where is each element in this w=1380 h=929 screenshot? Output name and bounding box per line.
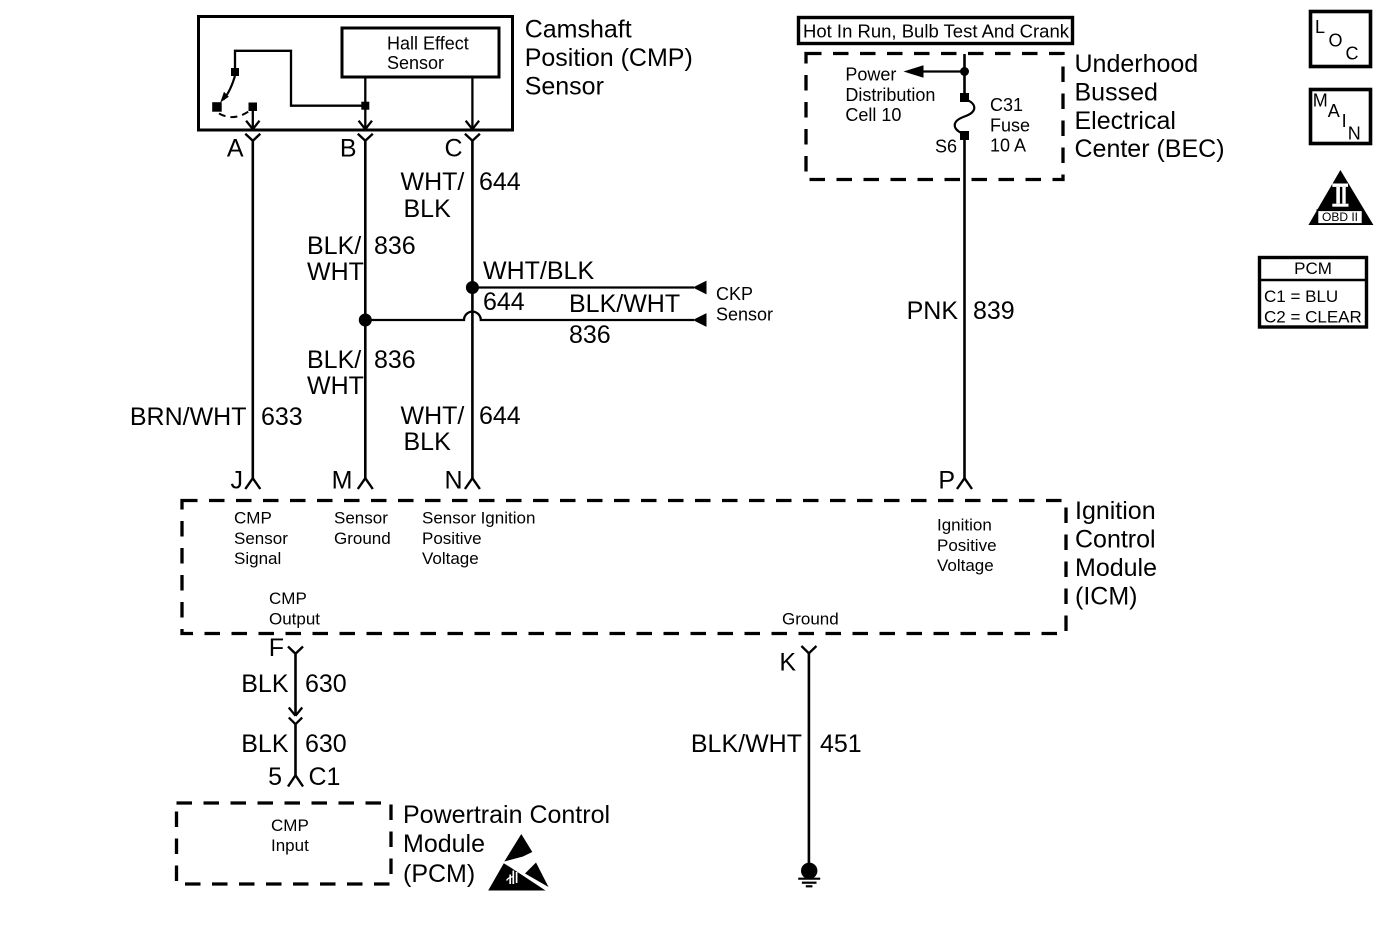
svg-text:Sensor: Sensor [234,529,288,548]
fuse C31 10A [955,94,1030,156]
svg-text:633: 633 [261,403,303,431]
svg-text:P: P [938,467,955,495]
svg-text:Control: Control [1075,526,1156,554]
dashed switch travel arc [219,111,250,118]
svg-text:C: C [1346,44,1359,64]
svg-text:N: N [444,467,462,495]
connector pin J [231,467,261,495]
Powertrain Control Module dashed box [177,803,392,884]
svg-text:O: O [1329,31,1343,51]
svg-text:WHT/: WHT/ [401,168,465,196]
svg-text:BLK/WHT: BLK/WHT [691,730,802,758]
svg-text:Ignition: Ignition [937,516,992,535]
label BLK/WHT 836 branch [569,290,680,349]
svg-text:Cell 10: Cell 10 [845,105,901,125]
label Sensor Ground [334,509,391,548]
svg-text:Ground: Ground [334,529,391,548]
label CMP Output [269,589,320,628]
svg-text:N: N [1348,124,1361,144]
svg-text:Camshaft: Camshaft [525,15,632,43]
label CMP Input [271,816,309,855]
svg-text:Voltage: Voltage [422,549,479,568]
label BLK 630 lower [241,730,346,758]
switch arm arrow [220,74,235,103]
svg-text:Positive: Positive [422,529,482,548]
MAIN reference box [1311,90,1371,144]
label BLK/WHT 836 upper [307,232,416,286]
svg-text:BLK/: BLK/ [307,346,361,374]
connector pin P [938,467,972,495]
svg-text:630: 630 [305,730,347,758]
svg-text:BLK/WHT: BLK/WHT [569,290,680,318]
svg-text:C: C [444,135,462,163]
svg-text:Output: Output [269,609,320,628]
junction node on B wire [359,314,371,326]
wire internal polyline to node B [235,51,365,106]
in-line connector on BLK 630 [289,708,302,725]
wire branch BLK/WHT 836 to CKP sensor with hop over C wire [365,312,706,327]
label BLK/WHT 451 [691,730,862,758]
svg-text:CKP: CKP [716,284,753,304]
svg-text:630: 630 [305,670,347,698]
svg-text:Ground: Ground [782,609,839,628]
wire A to J BRN/WHT 633 [252,141,255,478]
PCM connector color table [1260,258,1367,328]
svg-text:M: M [1313,91,1328,111]
svg-text:839: 839 [973,297,1015,325]
connector pin K [779,646,816,677]
svg-text:I: I [1342,111,1347,131]
label WHT/BLK 644 lower [401,402,521,456]
svg-text:Electrical: Electrical [1075,107,1176,135]
svg-text:C2 = CLEAR: C2 = CLEAR [1264,308,1362,327]
label BLK 630 upper [241,670,346,698]
svg-text:OBD II: OBD II [1322,210,1358,224]
svg-text:CMP: CMP [271,816,309,835]
connector pin N [444,467,479,495]
svg-text:L: L [1315,17,1325,37]
title Underhood Bussed Electrical Center (BEC) [1075,50,1225,163]
svg-text:BRN/WHT: BRN/WHT [130,403,247,431]
svg-text:BLK: BLK [404,195,452,223]
ground G [798,863,820,886]
svg-text:5: 5 [268,763,282,791]
wire from hot feed into BEC [963,54,966,97]
LOC reference box [1311,12,1371,67]
svg-text:644: 644 [483,288,525,316]
svg-text:Power: Power [845,65,896,85]
switch contact dot upper [232,69,239,76]
wire branch WHT/BLK 644 to CKP sensor [472,281,706,295]
svg-text:BLK: BLK [404,428,452,456]
svg-text:836: 836 [374,346,416,374]
label CMP Sensor Signal [234,509,288,569]
Hot In Run, Bulb Test And Crank header box [799,18,1073,44]
label WHT/BLK 644 branch [483,257,594,316]
label BLK/WHT 836 lower [307,346,416,400]
node CKP Sensor [716,284,773,325]
svg-text:Sensor: Sensor [525,72,604,100]
wire BLK/WHT 451 [808,653,811,864]
svg-text:BLK: BLK [241,670,289,698]
Ignition Control Module dashed box [182,501,1066,634]
svg-text:WHT/: WHT/ [401,402,465,430]
switch contact dot lower-right [249,103,257,111]
svg-text:Sensor: Sensor [716,305,773,325]
connector pin A [227,134,260,163]
OBD II symbol [1308,170,1373,225]
wire BLK 630 lower [294,724,297,775]
svg-text:Sensor Ignition: Sensor Ignition [422,509,535,528]
label PNK 839 [907,297,1015,325]
svg-text:WHT: WHT [307,258,364,286]
ESD sensitive device symbol [488,834,548,891]
svg-text:Distribution: Distribution [845,85,935,105]
svg-text:(ICM): (ICM) [1075,583,1137,611]
connector pin C [444,134,479,163]
svg-text:10 A: 10 A [990,136,1026,156]
svg-text:M: M [332,467,353,495]
svg-text:WHT: WHT [307,372,364,400]
wire BLK 630 upper [294,654,297,716]
svg-text:C31: C31 [990,95,1023,115]
svg-text:Input: Input [271,836,309,855]
svg-text:Voltage: Voltage [937,556,994,575]
junction node internal B [362,102,369,109]
svg-text:BLK: BLK [241,730,289,758]
Underhood BEC dashed box [806,54,1063,180]
svg-text:Hall Effect: Hall Effect [387,34,469,54]
label Sensor Ignition Positive Voltage [422,509,535,569]
label Ignition Positive Voltage [937,516,997,576]
connector pin F [269,634,303,662]
svg-text:Sensor: Sensor [334,509,388,528]
svg-text:Sensor: Sensor [387,53,444,73]
title Powertrain Control Module (PCM) [403,801,610,888]
svg-text:A: A [227,135,244,163]
svg-text:A: A [1328,101,1340,121]
svg-text:CMP: CMP [234,509,272,528]
svg-text:S6: S6 [935,137,957,157]
svg-text:(PCM): (PCM) [403,860,475,888]
CMP sensor outer box [199,17,513,131]
wire C to N WHT/BLK 644 [471,141,474,478]
label WHT/BLK 644 upper [401,168,521,223]
junction node on C wire [466,282,478,294]
svg-text:Fuse: Fuse [990,115,1030,135]
connector pin 5 of C1 [268,763,340,791]
svg-text:K: K [779,649,796,677]
svg-text:F: F [269,634,284,662]
wire pin A internal [246,108,259,129]
wire PNK 839 to pin P [963,137,966,478]
svg-text:C1: C1 [309,763,341,791]
svg-text:Center (BEC): Center (BEC) [1075,135,1225,163]
connector pin B [340,134,373,163]
svg-text:B: B [340,135,357,163]
svg-text:Powertrain Control: Powertrain Control [403,801,610,829]
svg-text:PCM: PCM [1294,259,1332,278]
svg-text:Signal: Signal [234,549,281,568]
junction node in BEC [961,68,969,76]
svg-text:Hot In Run, Bulb Test And Cran: Hot In Run, Bulb Test And Crank [803,21,1070,42]
svg-text:644: 644 [479,402,521,430]
svg-text:PNK: PNK [907,297,959,325]
svg-text:644: 644 [479,168,521,196]
wire arrow to Power Distribution Cell 10 [904,65,965,78]
svg-text:451: 451 [820,730,862,758]
svg-text:J: J [231,467,244,495]
switch contact dot lower-left [213,103,222,112]
svg-text:BLK/: BLK/ [307,232,361,260]
svg-text:CMP: CMP [269,589,307,608]
svg-text:836: 836 [569,321,611,349]
svg-text:Module: Module [403,830,485,858]
title Camshaft Position (CMP) Sensor [525,15,693,100]
wire pin B internal [359,77,372,129]
svg-text:Positive: Positive [937,536,997,555]
Hall Effect Sensor U1 [342,28,499,77]
svg-text:Module: Module [1075,554,1157,582]
svg-text:C1 = BLU: C1 = BLU [1264,287,1338,306]
title Ignition Control Module (ICM) [1075,497,1157,611]
svg-text:Bussed: Bussed [1075,78,1158,106]
svg-text:WHT/BLK: WHT/BLK [483,257,594,285]
wire B to M BLK/WHT 836 [364,141,367,478]
svg-text:Position (CMP): Position (CMP) [525,44,693,72]
connector pin M [332,467,373,495]
label Power Distribution Cell 10 [845,65,935,126]
svg-text:Underhood: Underhood [1075,50,1199,78]
wire pin C internal [466,77,479,129]
svg-text:Ignition: Ignition [1075,497,1156,525]
svg-text:836: 836 [374,232,416,260]
label BRN/WHT 633 [130,403,303,431]
